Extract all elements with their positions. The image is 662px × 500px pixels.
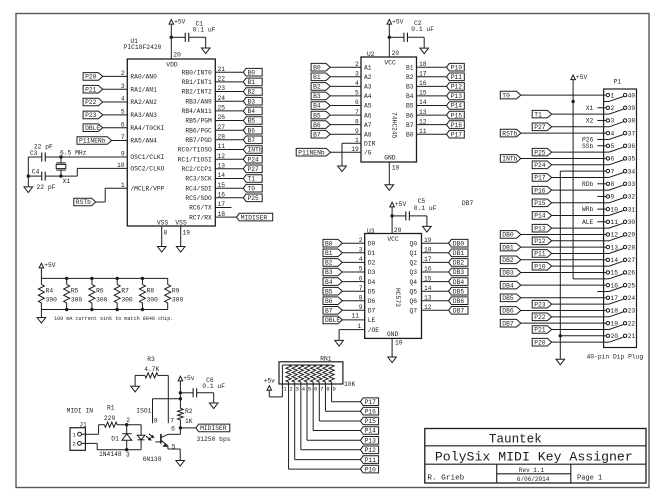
P1 pin 2 <box>604 105 615 112</box>
U1 pin 21 RB0/INT0 <box>182 66 226 77</box>
svg-text:7: 7 <box>611 168 615 175</box>
svg-text:VCC: VCC <box>384 60 396 67</box>
wire net B3 U3 <box>342 271 364 273</box>
wire net P10 <box>417 66 447 68</box>
P1 pin 17 <box>604 295 619 302</box>
svg-text:B1: B1 <box>313 74 321 81</box>
svg-text:DB1: DB1 <box>502 244 514 251</box>
svg-text:D6: D6 <box>368 298 376 305</box>
wire net B5 <box>329 114 361 116</box>
U3 pin 13 Q6 <box>409 294 431 305</box>
svg-text:P21: P21 <box>85 86 97 93</box>
svg-text:P15: P15 <box>534 200 546 207</box>
tag P27 P1 <box>532 123 551 131</box>
wire RN1 pin 2 to P10 <box>289 382 361 469</box>
opto light arrows <box>146 434 154 440</box>
P1 pin 33 <box>604 181 636 190</box>
svg-text:RB2/INT2: RB2/INT2 <box>182 89 212 96</box>
svg-text:31250 bps: 31250 bps <box>197 436 231 443</box>
svg-text:GND: GND <box>387 331 399 338</box>
P1 pin 19 <box>604 320 619 327</box>
wire /OE to ground <box>339 330 365 341</box>
svg-text:Q6: Q6 <box>409 298 417 305</box>
U1 pin 10 OSC2/CLKO <box>117 162 165 173</box>
svg-text:A7: A7 <box>364 122 372 129</box>
wire net P25 <box>215 197 243 199</box>
P1 pin 11 <box>604 219 619 226</box>
svg-text:RSTb: RSTb <box>502 130 517 137</box>
wire stub pin 3 X2 <box>597 119 603 121</box>
wire net P21 <box>103 88 128 90</box>
wire net T1 <box>215 178 243 180</box>
wire net T0 <box>215 187 243 189</box>
svg-text:X1: X1 <box>586 105 594 112</box>
svg-text:P14: P14 <box>451 103 463 110</box>
ground C6 <box>209 403 218 409</box>
svg-text:/OE: /OE <box>368 327 380 334</box>
resistor R2 1K <box>178 408 193 428</box>
svg-text:Page 1: Page 1 <box>577 474 602 482</box>
svg-text:DB4: DB4 <box>453 279 465 286</box>
power +5v RN1 <box>264 377 283 397</box>
U1 pin 18 RC7/RX <box>189 211 225 222</box>
resistor R3 4.7K <box>135 356 168 386</box>
P1 pin 39 <box>604 105 636 114</box>
U1 pin 28 RB7/PGD <box>185 134 225 145</box>
tag MIDISER out <box>196 424 230 432</box>
tag P17 <box>447 130 465 138</box>
junction rail R5 <box>65 277 68 280</box>
wire J1 pin2 bottom <box>81 443 141 449</box>
tag DB3 P1 <box>500 269 521 277</box>
svg-text:P23: P23 <box>85 112 97 119</box>
P1 pin 12 <box>604 232 619 239</box>
wire net B1 U3 <box>342 252 364 254</box>
svg-text:300: 300 <box>96 296 108 303</box>
tag DB5 P1 <box>500 294 521 302</box>
tag DB0 P1 <box>500 231 521 239</box>
tag P16 RN1 <box>360 407 378 415</box>
svg-text:40: 40 <box>628 92 636 99</box>
svg-text:C4: C4 <box>32 169 40 176</box>
resistor R7 300 <box>114 278 133 309</box>
svg-text:OSC1/CLKI: OSC1/CLKI <box>130 154 164 161</box>
svg-text:B4: B4 <box>325 279 333 286</box>
power +5v MIDI <box>178 375 195 408</box>
U2 pin 15 B4 <box>406 90 427 101</box>
svg-text:RC1/T1OSI: RC1/T1OSI <box>178 156 212 163</box>
tag T1 P1 <box>532 110 551 118</box>
svg-text:P11NENb: P11NENb <box>298 149 325 156</box>
wire net P11NENb <box>112 140 128 142</box>
U3 pin 12 Q7 <box>409 304 431 315</box>
svg-text:R4: R4 <box>46 287 54 294</box>
svg-text:20: 20 <box>392 50 400 57</box>
wire net DB5 <box>422 290 449 292</box>
wire net DB4 <box>422 281 449 283</box>
U2 pin 18 B1 <box>406 61 427 72</box>
svg-text:+5v: +5v <box>264 377 276 384</box>
svg-text:MIDI IN: MIDI IN <box>67 408 94 415</box>
wire net P13 <box>417 95 447 97</box>
P1 pin 5 <box>604 143 615 150</box>
power +5V resistor bank <box>39 262 56 278</box>
U2 pin 3 A2 <box>355 71 372 82</box>
tag B3 U3 <box>323 268 342 276</box>
tag DB6 P1 <box>500 307 521 315</box>
U1 VSS pin 19 ground <box>176 226 190 252</box>
wire net P24 P1 <box>552 164 604 166</box>
wire net MIDISER <box>215 216 236 218</box>
svg-text:P13: P13 <box>451 93 463 100</box>
tag P15 RN1 <box>360 417 378 425</box>
tag B0 <box>311 63 330 71</box>
svg-text:10K: 10K <box>344 381 356 388</box>
wire net B5 <box>215 120 243 122</box>
crystal X1 6.5 MHz <box>56 150 86 186</box>
wire net B1 <box>329 76 361 78</box>
tag P25 <box>243 194 262 202</box>
junction OSC1/X1 <box>59 155 62 158</box>
U3 pin 4 D2 <box>359 256 376 267</box>
svg-text:DB3: DB3 <box>453 269 465 276</box>
wire net P12 P1 <box>552 240 604 242</box>
svg-text:P12: P12 <box>451 84 463 91</box>
svg-text:8: 8 <box>326 385 330 392</box>
U1 pin 14 RC3/SCK <box>185 172 225 183</box>
ground C1 <box>201 48 210 54</box>
U2 pin 2 A1 <box>355 61 372 72</box>
svg-text:+5V: +5V <box>395 201 407 208</box>
ground U3 <box>388 357 397 363</box>
svg-text:HC573: HC573 <box>394 288 401 307</box>
U3 pin 9 D7 <box>359 304 376 315</box>
junction ground pin20 <box>559 334 562 337</box>
wire RN1 pin 4 to P12 <box>301 382 361 450</box>
svg-text:D1: D1 <box>368 250 376 257</box>
svg-text:220: 220 <box>104 415 116 422</box>
U3 pin 18 Q1 <box>409 247 431 258</box>
svg-text:P27: P27 <box>534 124 546 131</box>
svg-text:ALE: ALE <box>582 219 594 226</box>
P1 pin 9 <box>604 194 615 201</box>
U1 pin 16 RC5/SDO <box>185 192 225 203</box>
U3 pin 11 LE <box>351 312 375 324</box>
power +5V U3 <box>390 201 407 233</box>
U3 pin 17 Q2 <box>409 256 431 267</box>
svg-text:B7: B7 <box>248 137 256 144</box>
tag P11 <box>447 73 465 81</box>
svg-text:D7: D7 <box>368 308 376 315</box>
resistor R6 300 <box>89 278 108 309</box>
svg-text:7: 7 <box>170 418 174 425</box>
wire net DB1 P1 <box>521 246 604 248</box>
tag B1 <box>243 78 262 86</box>
svg-text:DBLE: DBLE <box>325 317 340 324</box>
tag DB7 <box>449 307 468 315</box>
tag B1 <box>311 73 330 81</box>
wire crystal ground rail <box>27 157 29 187</box>
svg-text:P21: P21 <box>534 327 546 334</box>
svg-text:74HC245: 74HC245 <box>391 112 398 139</box>
junction node 6 collector <box>171 426 182 433</box>
RN1 resistor element 1 <box>286 365 291 382</box>
wire OSC2 net <box>61 168 127 176</box>
U1 pin 5 RA3/AN3 <box>121 109 157 120</box>
tag P11 P1 <box>532 250 551 258</box>
svg-text:P27: P27 <box>248 166 260 173</box>
wire net P13 P1 <box>552 227 604 229</box>
tag B6 U3 <box>323 297 342 305</box>
ground resistor bank <box>37 310 46 324</box>
wire RN1 pin 7 to P15 <box>319 382 360 421</box>
wire net P17 <box>417 133 447 135</box>
U1 pin 3 RA1/AN1 <box>121 83 157 94</box>
svg-text:4: 4 <box>302 385 306 392</box>
svg-text:26: 26 <box>628 270 636 277</box>
svg-text:DIR: DIR <box>364 140 376 147</box>
wire net DB2 <box>422 261 449 263</box>
svg-text:24: 24 <box>628 295 636 302</box>
P1 pin 25 <box>604 282 636 291</box>
wire net P16 P1 <box>552 189 604 191</box>
RN1 resistor element 4 <box>304 365 309 382</box>
P1 pin 34 <box>604 168 636 177</box>
wire net INTb <box>215 149 243 151</box>
U1 pin 26 RB5/PGM <box>185 114 225 125</box>
U1 pin 25 RB4/AN11 <box>182 105 226 116</box>
svg-text:B0: B0 <box>248 69 256 76</box>
svg-text:27: 27 <box>628 257 636 264</box>
svg-text:6: 6 <box>171 426 175 433</box>
svg-text:4: 4 <box>611 130 615 137</box>
junction X1/C4 <box>59 174 62 177</box>
wire stub pin 10 WRb <box>597 208 603 210</box>
svg-text:6N138: 6N138 <box>143 456 162 463</box>
tag DB2 <box>449 259 468 267</box>
svg-text:P13: P13 <box>534 225 546 232</box>
wire net DB3 <box>422 271 449 273</box>
U2 pin 7 A6 <box>355 109 372 120</box>
P1 pin 7 <box>604 168 615 175</box>
wire net B6 U3 <box>342 300 364 302</box>
svg-text:R. Grieb: R. Grieb <box>427 475 464 483</box>
U1 pin 13 RC2/CCP1 <box>182 163 226 174</box>
tag INTb <box>243 146 262 154</box>
wire OSC1 net <box>61 156 127 158</box>
wire net DB6 P1 <box>521 309 604 311</box>
svg-text:B5: B5 <box>325 288 333 295</box>
svg-text:Q2: Q2 <box>409 260 417 267</box>
U2 pin 1 DIR <box>355 137 376 148</box>
svg-text:P14: P14 <box>534 213 546 220</box>
svg-text:6: 6 <box>611 156 615 163</box>
svg-text:RSTb: RSTb <box>76 199 91 206</box>
svg-text:B3: B3 <box>248 98 256 105</box>
svg-text:R9: R9 <box>172 287 180 294</box>
ground C5 <box>423 226 432 232</box>
wire stub pin 25 <box>597 290 603 292</box>
svg-text:33: 33 <box>628 181 636 188</box>
wire net P15 P1 <box>552 202 604 204</box>
RN1 common rail <box>282 364 331 366</box>
svg-text:OSC2/CLKO: OSC2/CLKO <box>130 166 164 173</box>
svg-text:1: 1 <box>611 92 615 99</box>
svg-text:20: 20 <box>173 52 181 59</box>
junction U3 VCC node <box>390 214 393 217</box>
ground U2 <box>385 185 394 191</box>
tag INTb P1 <box>500 155 521 163</box>
tag DBLE U3 <box>323 316 342 324</box>
wire net P22 <box>103 101 128 103</box>
svg-text:RA0/AN0: RA0/AN0 <box>130 74 157 81</box>
U3 pin 15 Q4 <box>409 275 431 286</box>
tag P13 P1 <box>532 224 551 232</box>
svg-text:B1: B1 <box>325 250 333 257</box>
tag P15 <box>447 111 465 119</box>
svg-text:2: 2 <box>126 417 130 424</box>
tag P13 RN1 <box>360 437 378 445</box>
svg-text:R1: R1 <box>107 404 115 411</box>
svg-text:DB0: DB0 <box>453 240 465 247</box>
svg-text:B7: B7 <box>325 308 333 315</box>
tag B3 <box>311 92 330 100</box>
tag P17 P1 <box>532 174 551 182</box>
wire net B0 <box>215 71 243 73</box>
P1 pin 1 <box>604 92 615 99</box>
tag P21 <box>83 85 103 93</box>
svg-text:DB5: DB5 <box>502 295 514 302</box>
tag DB5 <box>449 287 468 295</box>
svg-text:C5: C5 <box>418 198 426 205</box>
wire +5V rail <box>41 277 167 279</box>
svg-text:RA2/AN2: RA2/AN2 <box>130 99 157 106</box>
P1 pin 37 <box>604 130 636 139</box>
wire net DB5 P1 <box>521 297 604 299</box>
svg-text:30: 30 <box>628 219 636 226</box>
svg-text:VSS: VSS <box>175 219 187 226</box>
svg-text:RC3/SCK: RC3/SCK <box>185 176 212 183</box>
wire net DB7 <box>422 309 449 311</box>
P1 pin 14 <box>604 257 619 264</box>
P1 pin 10 <box>604 206 619 213</box>
wire net B0 <box>329 66 361 68</box>
P1 pin 13 <box>604 244 619 251</box>
wire RN1 pin 8 to P16 <box>325 382 360 411</box>
tag B4 <box>311 102 330 110</box>
svg-text:3: 3 <box>611 118 615 125</box>
svg-text:39: 39 <box>628 105 636 112</box>
svg-text:+5V: +5V <box>576 74 588 81</box>
P1 pin 26 <box>604 270 636 279</box>
tag DB0 <box>449 239 468 247</box>
P1 pin 36 <box>604 143 636 152</box>
svg-text:300: 300 <box>121 296 133 303</box>
svg-text:D2: D2 <box>368 260 376 267</box>
resistor R9 300 <box>165 278 184 309</box>
svg-text:1K: 1K <box>185 418 193 425</box>
svg-text:300: 300 <box>172 296 184 303</box>
power +5V P1 bus <box>571 74 604 279</box>
svg-text:DB4: DB4 <box>502 282 514 289</box>
U2 pin 8 A7 <box>355 118 372 129</box>
svg-text:A4: A4 <box>364 93 372 100</box>
U1 VSS pin 8 ground <box>157 226 167 252</box>
wire net B2 <box>215 91 243 93</box>
RN1 resistor element 3 <box>298 365 303 382</box>
svg-text:P14: P14 <box>365 428 377 435</box>
svg-text:2: 2 <box>289 385 293 392</box>
svg-text:P22: P22 <box>534 314 546 321</box>
tag RSTb <box>74 198 96 206</box>
wire pin8 to +5V node <box>153 398 181 400</box>
U3 pin 8 D6 <box>359 294 376 305</box>
tag P22 P1 <box>532 313 551 321</box>
U3 pin 19 Q0 <box>409 237 431 248</box>
svg-text:Rev 1.1: Rev 1.1 <box>519 467 545 474</box>
svg-text:21: 21 <box>628 333 636 340</box>
wire RN1 pin 9 to P17 <box>332 382 361 402</box>
tag P13 <box>447 92 465 100</box>
svg-text:B0: B0 <box>313 64 321 71</box>
svg-text:D1: D1 <box>111 435 119 442</box>
wire stub pin 37 P26 <box>597 138 603 140</box>
svg-text:INTb: INTb <box>248 147 263 154</box>
wire net B2 <box>329 85 361 87</box>
svg-text:Q4: Q4 <box>409 279 417 286</box>
U1 pin 12 RC1/T1OSI <box>178 153 225 164</box>
wire R1 to opto anode <box>117 424 141 426</box>
svg-text:D4: D4 <box>368 279 376 286</box>
RN1 resistor element 7 <box>323 365 328 382</box>
tag P16 <box>447 121 465 129</box>
wire stub pin 5 SSb <box>597 145 603 147</box>
svg-text:B3: B3 <box>406 84 414 91</box>
svg-text:1N4148: 1N4148 <box>99 451 122 458</box>
svg-text:Tauntek: Tauntek <box>489 433 542 447</box>
svg-text:D3: D3 <box>368 269 376 276</box>
ground crystal rail <box>24 187 33 193</box>
svg-text:40-pin Dip Plug: 40-pin Dip Plug <box>587 354 644 361</box>
U1 pin 22 RB1/INT1 <box>182 76 226 87</box>
svg-text:B7: B7 <box>406 122 414 129</box>
svg-text:3: 3 <box>126 452 130 459</box>
wire J1 pin1 to R1 <box>81 425 104 435</box>
tag B6 <box>311 121 330 129</box>
opto-isolator ISO1 6N138 <box>136 407 161 463</box>
svg-text:P11NENb: P11NENb <box>79 138 106 145</box>
P1 pin 40 <box>604 92 636 101</box>
P1 pin 22 <box>604 320 636 329</box>
svg-text:P16: P16 <box>534 187 546 194</box>
svg-text:RC6/TX: RC6/TX <box>189 205 212 212</box>
ground R3 <box>131 386 140 392</box>
U2 pin 14 B5 <box>406 99 427 110</box>
svg-text:Q1: Q1 <box>409 250 417 257</box>
P1 pin 6 <box>604 156 615 163</box>
resistor R8 300 <box>139 278 158 309</box>
svg-text:19: 19 <box>183 230 191 237</box>
svg-text:B3: B3 <box>313 93 321 100</box>
svg-text:P15: P15 <box>451 112 463 119</box>
svg-text:T1: T1 <box>248 176 256 183</box>
tag B4 U3 <box>323 278 342 286</box>
tag P21 P1 <box>532 326 551 334</box>
U2 GND pin 10 <box>389 162 399 185</box>
svg-text:2: 2 <box>611 105 615 112</box>
tag B2 <box>243 88 262 96</box>
P1 pin 31 <box>604 206 636 215</box>
